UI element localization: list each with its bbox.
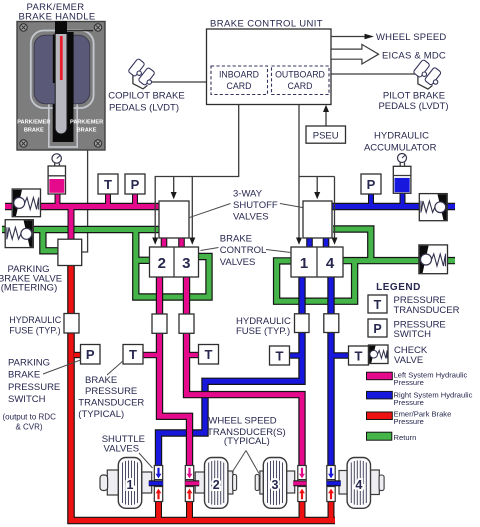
svg-text:CONTROL: CONTROL	[220, 245, 266, 256]
wire: stub to transducer T (line 4)	[331, 352, 349, 358]
svg-text:WHEEL SPEED: WHEEL SPEED	[208, 416, 276, 427]
svg-text:PARK/EMER: PARK/EMER	[17, 120, 50, 126]
svg-text:4: 4	[326, 255, 335, 272]
wire: stub to parking brake pressure switch	[74, 352, 81, 358]
pressure transducer T (left system, top)	[98, 174, 118, 194]
wire: return from right 3-way shutoff valve down to right return line	[333, 229, 371, 261]
svg-text:INBOARD: INBOARD	[219, 70, 259, 80]
PSEU box	[306, 126, 346, 143]
svg-text:T: T	[129, 347, 137, 362]
svg-text:(output to RDC: (output to RDC	[3, 413, 57, 422]
shuttle valve 4	[327, 466, 335, 502]
pilot brake pedals (LVDT) icon	[378, 59, 448, 112]
wheel 3	[255, 458, 294, 509]
brake pressure transducer T (line 2)	[123, 345, 143, 365]
wire: shuttle valve 4 output bar to wheel 4	[327, 480, 341, 486]
copilot brake pedals (LVDT) icon	[108, 58, 184, 113]
svg-text:PRESSURE: PRESSURE	[85, 386, 137, 397]
svg-text:TRANSDUCER: TRANSDUCER	[394, 305, 460, 316]
3-way shutoff valve (right)	[303, 201, 332, 238]
pressure switch P (right system, top)	[361, 174, 381, 194]
brake pressure transducer T (line 1)	[270, 346, 290, 365]
label: hydraulic fuse (typ.) left	[9, 315, 62, 335]
svg-text:ACCUMULATOR: ACCUMULATOR	[364, 143, 437, 154]
wire: U-loop under brake control valves 1-4	[277, 261, 355, 302]
legend: pressure transducer symbol	[368, 295, 387, 313]
svg-text:SWITCH: SWITCH	[8, 394, 46, 405]
green return network	[2, 229, 455, 301]
wire: shuttle valve 1 output bar to wheel 1	[149, 480, 163, 486]
wire: return drop + U-loop under brake control valves 2-3	[136, 230, 209, 298]
svg-text:BRAKE CONTROL UNIT: BRAKE CONTROL UNIT	[210, 19, 323, 30]
svg-text:2: 2	[213, 478, 220, 492]
wire: right shutoff valve to BCV 1-4 stubs	[306, 238, 313, 248]
svg-text:(TYPICAL): (TYPICAL)	[224, 436, 270, 447]
wire: PSEU to BCU (arrow up)	[323, 105, 329, 126]
label: brake control valves with leaders	[201, 234, 292, 268]
hydraulic fuse (line 4)	[324, 314, 339, 333]
legend: return swatch	[367, 432, 392, 440]
svg-text:CARD: CARD	[288, 81, 313, 91]
parking brake valve (metering)	[58, 239, 82, 265]
brake control valves box 1-4	[291, 247, 343, 277]
svg-text:T: T	[355, 348, 363, 363]
svg-text:BRAKE: BRAKE	[85, 375, 117, 386]
magenta left-system hydraulic network	[5, 194, 302, 467]
svg-text:VALVE: VALVE	[394, 355, 423, 366]
check valve CV1 (left system pressure)	[12, 189, 40, 217]
hydraulic fuse (line 3)	[179, 314, 194, 333]
wire: BCV output 2 routed to shuttle valve 2	[160, 277, 190, 467]
outboard card (dashed)	[272, 66, 330, 95]
wire: shuttle valve 4 output to wheel 4	[332, 204, 455, 209]
svg-text:FUSE (TYP.): FUSE (TYP.)	[236, 326, 290, 337]
legend: emer/park brake pressure swatch	[367, 412, 393, 420]
wire: left shutoff valve to BCV 2-3 stubs	[161, 238, 168, 248]
legend: right system hydraulic pressure swatch	[367, 391, 393, 399]
wire: stem to hydraulic accumulator (right)	[400, 193, 406, 205]
wire: feed to parking brake valve	[68, 209, 75, 240]
svg-text:P: P	[86, 347, 95, 362]
svg-text:2: 2	[158, 255, 166, 272]
svg-text:COPILOT BRAKE: COPILOT BRAKE	[108, 91, 184, 102]
svg-text:Pressure: Pressure	[394, 378, 424, 387]
svg-text:EICAS & MDC: EICAS & MDC	[382, 51, 446, 62]
svg-text:T: T	[276, 348, 284, 363]
brake pressure transducer T (line 4)	[349, 346, 369, 365]
svg-text:SHUTOFF: SHUTOFF	[233, 200, 278, 211]
wire: copilot pedals to BCU inboard	[151, 81, 207, 83]
wire: right return line to green check valve	[343, 257, 455, 264]
wire: return branch to parking brake valve	[43, 230, 59, 251]
svg-text:BRAKE: BRAKE	[77, 128, 97, 134]
svg-text:P: P	[131, 177, 140, 192]
wire: risers into shuttle valves 1-4	[155, 501, 162, 519]
svg-text:(METERING): (METERING)	[1, 283, 57, 294]
wire: stem to pressure switch P (right)	[368, 194, 374, 204]
label: (output to RDC & CVR)	[3, 413, 57, 432]
wire: stub to transducer T (line 3)	[187, 352, 199, 358]
svg-text:1: 1	[127, 478, 134, 492]
3-way shutoff valve (left)	[159, 201, 189, 238]
EICAS & MDC outline arrow	[331, 44, 446, 64]
wire: stub to transducer T (line 1)	[290, 352, 303, 358]
svg-text:HYDRAULIC: HYDRAULIC	[9, 315, 62, 325]
wire: stem to pressure switch P (top)	[132, 194, 138, 204]
wire: stem to transducer T (top)	[105, 194, 111, 204]
wire: park/emer handle mechanical link to parking brake valve	[82, 150, 88, 252]
wire: right system pressure line from shutoff valve to blue check valve	[332, 203, 455, 210]
svg-text:3: 3	[272, 478, 279, 492]
wire: left system pressure line across check valve to left shutoff valve	[5, 203, 161, 210]
svg-text:T: T	[374, 298, 382, 312]
hydraulic accumulator (left/park system)	[48, 154, 65, 194]
svg-text:SWITCH: SWITCH	[394, 329, 432, 340]
label: brake pressure transducer (typical) with leader	[78, 361, 144, 421]
svg-text:& CVR): & CVR)	[15, 423, 42, 432]
hydraulic fuse (red emer line)	[64, 314, 79, 334]
svg-text:VALVES: VALVES	[220, 257, 256, 268]
svg-text:Return: Return	[394, 433, 417, 442]
wheel 4	[339, 458, 384, 509]
shuttle valve 3	[298, 466, 306, 502]
svg-text:(TYPICAL): (TYPICAL)	[78, 409, 124, 420]
svg-text:HYDRAULIC: HYDRAULIC	[374, 131, 429, 142]
wire: emer/park brake line from parking brake valve down and across bottom	[71, 265, 335, 521]
svg-text:VALVES: VALVES	[104, 444, 140, 455]
wire: BCV output 3 routed to shuttle valve 3	[187, 277, 303, 467]
wire: inboard card harness to left shutoff/control valves	[152, 105, 239, 245]
svg-text:4: 4	[355, 478, 362, 492]
brake control valves box 2-3	[150, 247, 199, 277]
svg-text:CARD: CARD	[227, 81, 252, 91]
label: hydraulic fuse (typ.) right	[236, 316, 291, 337]
hydraulic fuse (line 2)	[152, 314, 167, 333]
wire: BCV output 4 down to shuttle valve 4	[327, 277, 334, 467]
svg-text:BRAKE: BRAKE	[8, 370, 40, 381]
wire: BCU to pilot pedals	[331, 73, 418, 75]
label: parking brake valve (metering)	[0, 264, 62, 294]
svg-text:OUTBOARD: OUTBOARD	[275, 70, 325, 80]
svg-text:P: P	[373, 322, 381, 336]
label: wheel speed transducer(s) (typical) with leaders	[207, 416, 286, 474]
svg-text:FUSE (TYP.): FUSE (TYP.)	[9, 325, 60, 335]
svg-text:Pressure: Pressure	[394, 398, 424, 407]
pressure switch P (left system, top)	[125, 174, 145, 194]
brake pressure transducer T (line 3)	[199, 345, 219, 365]
svg-text:PEDALS (LVDT): PEDALS (LVDT)	[109, 103, 179, 114]
park/emer brake handle panel	[17, 2, 105, 150]
svg-text:PEDALS (LVDT): PEDALS (LVDT)	[378, 101, 448, 112]
svg-text:T: T	[205, 347, 213, 362]
legend: left system hydraulic pressure swatch	[367, 372, 393, 380]
check valve CV3 (right system pressure, blue line)	[419, 194, 447, 221]
legend: pressure switch symbol	[368, 319, 387, 337]
svg-text:TRANSDUCER: TRANSDUCER	[78, 397, 144, 408]
check valve CV4 (return, right)	[419, 245, 448, 274]
red emergency/park brake network	[71, 265, 335, 521]
svg-text:PARK/EMER: PARK/EMER	[70, 120, 103, 126]
svg-text:PARKING: PARKING	[8, 357, 50, 368]
inboard card (dashed)	[211, 66, 268, 95]
svg-text:LEGEND: LEGEND	[376, 282, 421, 293]
hydraulic accumulator (right system)	[364, 131, 437, 194]
svg-text:BRAKE: BRAKE	[220, 234, 252, 245]
wire: return nub into left edge of brake control valves 2-3	[136, 257, 151, 264]
shuttle valve 2	[185, 466, 193, 502]
shuttle valve 1	[154, 466, 162, 502]
hydraulic fuse (line 1)	[295, 314, 310, 333]
legend	[367, 282, 473, 442]
wheel 2	[195, 458, 236, 509]
wire: BCV output 1 routed to shuttle valve 1	[159, 277, 303, 467]
svg-text:Pressure: Pressure	[394, 417, 424, 426]
wheel speed output arrow	[331, 32, 446, 43]
wire: shuttle valve 3 output to wheel 3	[5, 204, 161, 209]
svg-text:3: 3	[182, 255, 190, 272]
svg-text:3-WAY: 3-WAY	[233, 189, 263, 200]
svg-text:T: T	[104, 177, 112, 192]
wheel 1	[100, 458, 152, 509]
label: parking brake pressure switch with leader	[8, 357, 81, 405]
check valve CV2 (return, left)	[5, 220, 33, 248]
wire: stub to transducer T (line 2)	[144, 352, 160, 358]
wire: stem to left accumulator	[55, 194, 61, 205]
wire: shuttle valve 3 output bar to wheel 3	[293, 480, 306, 486]
parking brake pressure switch P	[81, 345, 101, 365]
brake control unit U1	[207, 19, 332, 105]
svg-text:P: P	[367, 177, 376, 192]
svg-text:BRAKE: BRAKE	[24, 128, 44, 134]
wire: shuttle valve 2 output bar to wheel 2	[185, 480, 199, 486]
wire: outboard card harness to right shutoff/control valves	[296, 105, 338, 245]
svg-text:PSEU: PSEU	[313, 131, 339, 142]
svg-text:PRESSURE: PRESSURE	[8, 382, 60, 393]
label: 3-way shutoff valves with leaders	[189, 189, 303, 223]
svg-text:VALVES: VALVES	[233, 211, 269, 222]
label: shuttle valves with leader	[102, 434, 153, 468]
legend: check valve symbol	[369, 345, 389, 364]
svg-text:WHEEL SPEED: WHEEL SPEED	[376, 32, 446, 43]
blue right-system hydraulic network	[159, 193, 456, 467]
wire: return line, left check valve to left 3-way shutoff valve	[2, 226, 161, 233]
svg-text:1: 1	[300, 255, 308, 272]
